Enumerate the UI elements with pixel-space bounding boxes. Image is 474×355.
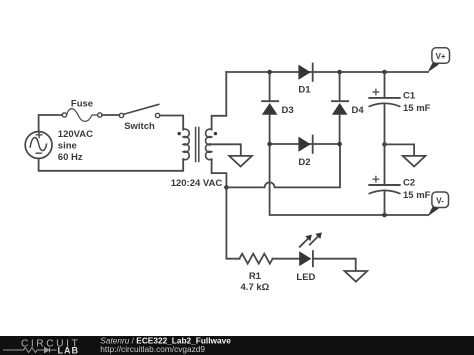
wire mid caps to ground: [385, 144, 415, 154]
wire bridge left leg down to bottom rail: [270, 144, 428, 215]
wire secondary top to bridge node A: [212, 72, 227, 130]
voltage source V1: [25, 132, 52, 159]
diode D4: [332, 72, 348, 144]
svg-text:120:24 VAC: 120:24 VAC: [171, 178, 223, 189]
ground G3 LED: [345, 271, 368, 282]
svg-text:Fuse: Fuse: [71, 99, 93, 110]
svg-text:D3: D3: [282, 105, 294, 116]
wire secondary bottom to node B: [212, 159, 227, 186]
label 120VAC sine 60 Hz: [58, 129, 93, 163]
node dot top rail left: [267, 70, 272, 75]
wire switch to transformer: [160, 116, 183, 130]
svg-text:http://circuitlab.com/cvgazd9: http://circuitlab.com/cvgazd9: [100, 344, 205, 354]
transformer T1 secondary winding: [206, 129, 212, 159]
svg-text:LED: LED: [296, 272, 315, 283]
svg-text:sine: sine: [58, 140, 77, 151]
ground G1 center tap: [229, 156, 252, 167]
ground G2 mid caps: [403, 156, 426, 167]
svg-text:C2: C2: [403, 177, 415, 188]
wire node B down to R1 branch: [226, 189, 239, 259]
wire node B horizontal with hop: [226, 146, 340, 188]
node B junction dot: [224, 185, 229, 190]
node dot bottom rail C2: [382, 213, 387, 218]
svg-text:4.7 kΩ: 4.7 kΩ: [241, 282, 270, 293]
svg-text:D4: D4: [352, 105, 365, 116]
svg-text:V-: V-: [436, 196, 444, 205]
footer bar: [0, 336, 474, 355]
resistor R1: [239, 254, 272, 264]
svg-text:D2: D2: [298, 157, 310, 168]
node dot top rail C1: [382, 70, 387, 75]
wire top rail: [226, 71, 428, 73]
svg-text:C1: C1: [403, 90, 416, 101]
wire R1 to LED: [273, 258, 300, 260]
svg-text:R1: R1: [249, 271, 262, 282]
flag V-: [428, 192, 449, 216]
flag V+: [428, 48, 450, 73]
svg-text:120VAC: 120VAC: [58, 129, 93, 140]
transformer phasing dot secondary: [214, 132, 217, 135]
node dot middle rail right: [337, 142, 342, 147]
node dot middle rail left: [267, 142, 272, 147]
logo schematic line: [3, 348, 57, 353]
node dot mid caps: [382, 142, 387, 147]
fuse F1: [62, 109, 102, 122]
wire fuse to switch: [102, 114, 119, 116]
svg-text:D1: D1: [298, 84, 311, 95]
capacitor C2: [369, 144, 399, 215]
svg-text:V+: V+: [436, 52, 446, 61]
transformer T1 core: [196, 128, 199, 162]
svg-text:Switch: Switch: [124, 121, 155, 132]
wire middle rail: [270, 143, 340, 145]
capacitor C1: [369, 72, 399, 144]
wire LED to ground: [313, 259, 356, 270]
transformer phasing dot primary: [178, 132, 181, 135]
transformer center tap wire: [213, 144, 241, 155]
diode D1: [298, 64, 312, 81]
diode D3: [262, 72, 278, 144]
wire source bottom to transformer: [39, 158, 184, 170]
svg-text:15 mF: 15 mF: [403, 103, 431, 114]
LED D5: [299, 232, 322, 266]
diode D2: [298, 136, 312, 153]
svg-text:LAB: LAB: [58, 346, 80, 355]
node dot top rail right: [337, 70, 342, 75]
svg-text:15 mF: 15 mF: [403, 190, 431, 201]
svg-text:60 Hz: 60 Hz: [58, 152, 83, 163]
wire source top: [39, 115, 63, 132]
transformer T1 primary winding: [183, 129, 189, 159]
switch SW1: [119, 104, 160, 117]
